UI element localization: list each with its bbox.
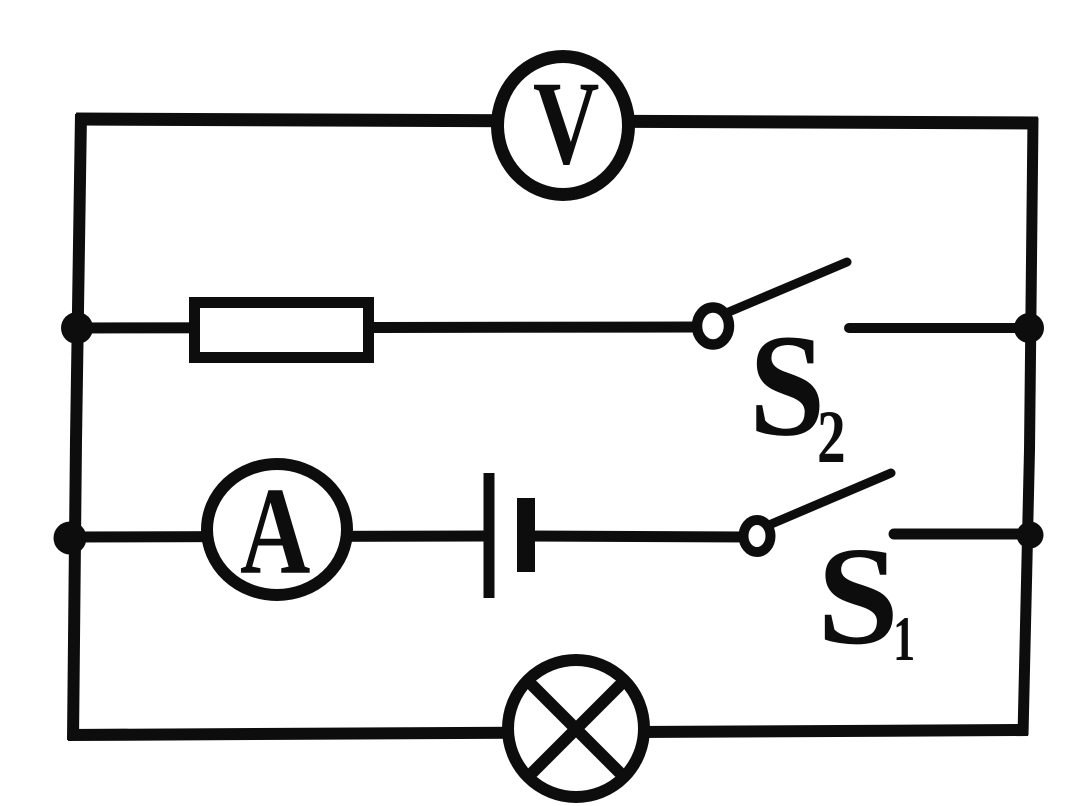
node left row2 [61, 312, 93, 344]
wire left edge [73, 114, 81, 740]
svg-text:S: S [749, 304, 825, 466]
svg-text:S: S [817, 519, 899, 674]
battery BT1 [489, 473, 526, 598]
node left row3 [54, 522, 87, 555]
wire row2 left (to resistor and switch S2) [75, 327, 699, 328]
wire row3 left (to ammeter and battery) [71, 536, 486, 537]
svg-text:2: 2 [817, 394, 846, 478]
voltmeter U1 [498, 57, 629, 195]
switch S2 [697, 262, 847, 345]
svg-text:A: A [240, 463, 310, 601]
node right row3 [1017, 522, 1044, 549]
wire bottom [68, 730, 1028, 735]
wire row2 right [849, 323, 1031, 333]
node right row2 [1014, 313, 1044, 343]
ammeter U2 [207, 464, 347, 595]
wire row3 right [894, 529, 1031, 540]
wire top [76, 119, 1038, 123]
svg-text:V: V [533, 57, 599, 189]
switch S1 [744, 473, 892, 552]
wire row3 middle (battery to switch S1) [528, 536, 748, 537]
svg-text:1: 1 [893, 603, 915, 674]
resistor R [195, 303, 369, 358]
wire right edge [1023, 118, 1033, 735]
lamp L1 [508, 660, 644, 797]
